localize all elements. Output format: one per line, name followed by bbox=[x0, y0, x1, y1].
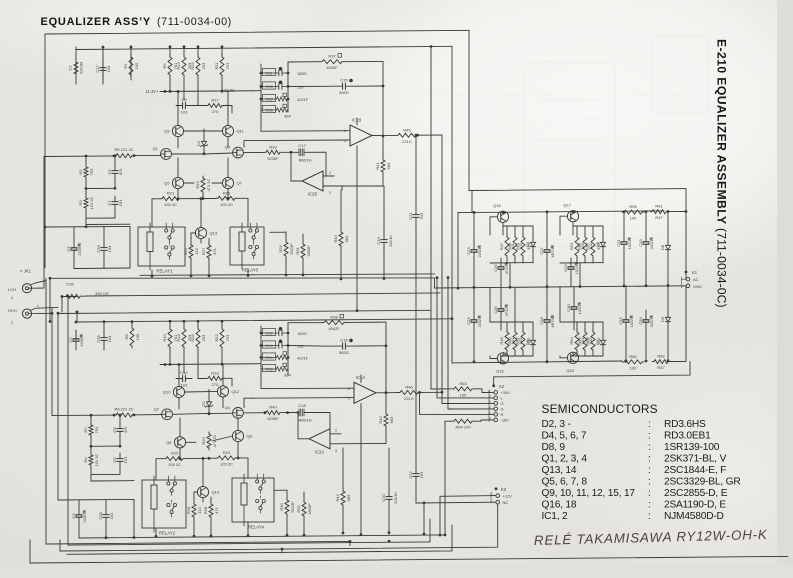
junction bbox=[290, 151, 293, 154]
wire bbox=[573, 318, 575, 330]
svg-text:LCH: LCH bbox=[8, 287, 16, 292]
svg-text:R26: R26 bbox=[186, 506, 191, 514]
capacitor C23 bbox=[471, 240, 480, 262]
junction bbox=[423, 502, 426, 505]
connector K3 pin bbox=[495, 487, 498, 490]
wire bbox=[302, 234, 304, 242]
terminal K2 R bbox=[494, 413, 498, 417]
wire bbox=[576, 226, 578, 235]
wire bbox=[473, 288, 475, 311]
wire bbox=[103, 227, 105, 241]
wire bbox=[178, 365, 180, 387]
svg-text:333: 333 bbox=[419, 212, 424, 219]
svg-text:C39: C39 bbox=[96, 335, 101, 343]
svg-text:R22: R22 bbox=[171, 451, 179, 456]
wire bbox=[500, 287, 502, 300]
svg-text:3: 3 bbox=[329, 191, 331, 195]
svg-text:203: 203 bbox=[201, 334, 206, 341]
resistor R54 bbox=[575, 330, 579, 352]
wire: L input line bbox=[44, 155, 114, 158]
junction bbox=[260, 344, 263, 347]
svg-text:563G: 563G bbox=[339, 90, 349, 95]
wire bbox=[237, 442, 239, 458]
svg-text:11.3V+: 11.3V+ bbox=[145, 89, 159, 94]
junction bbox=[51, 312, 54, 315]
wire bbox=[185, 390, 218, 393]
svg-text:113: 113 bbox=[197, 507, 202, 514]
resistor R33 bbox=[261, 93, 288, 101]
wire bbox=[514, 258, 516, 263]
svg-text:471/1E: 471/1E bbox=[504, 303, 509, 316]
resistor R46 bbox=[398, 391, 420, 395]
svg-text:GND: GND bbox=[693, 284, 702, 289]
resistor R23 bbox=[216, 196, 237, 200]
wire bbox=[584, 322, 586, 330]
wire bbox=[340, 190, 342, 230]
svg-text:163: 163 bbox=[419, 471, 424, 478]
svg-text:R27: R27 bbox=[201, 247, 206, 255]
wire bbox=[177, 92, 179, 126]
wire bbox=[625, 332, 627, 361]
svg-text:3: 3 bbox=[335, 449, 337, 453]
svg-text:332/1E: 332/1E bbox=[649, 236, 654, 249]
resistor R1 bbox=[84, 165, 88, 179]
resistor R34 bbox=[261, 352, 288, 360]
wire bbox=[341, 186, 343, 190]
svg-text:C26: C26 bbox=[493, 306, 498, 314]
wire: left border bbox=[44, 34, 46, 268]
junction bbox=[85, 187, 88, 190]
svg-text:D2: D2 bbox=[201, 401, 206, 407]
wire bbox=[119, 437, 121, 446]
resistor R8 bbox=[130, 326, 134, 348]
resistor R27 bbox=[207, 243, 211, 260]
svg-text:Q11: Q11 bbox=[237, 129, 245, 134]
svg-text:103: 103 bbox=[181, 110, 188, 115]
svg-text:753: 753 bbox=[89, 168, 94, 175]
svg-text:Q9, 10, 11, 12, 15, 17: Q9, 10, 11, 12, 15, 17 bbox=[542, 488, 636, 499]
svg-text:Q17: Q17 bbox=[563, 203, 571, 208]
wire bbox=[184, 182, 194, 184]
junction bbox=[49, 277, 52, 280]
resistor R40 bbox=[264, 411, 282, 415]
junction bbox=[546, 360, 549, 363]
wire bbox=[429, 519, 431, 542]
wire bbox=[227, 158, 229, 177]
capacitor C20 bbox=[386, 489, 392, 507]
terminal K3 +12V bbox=[496, 494, 500, 498]
junction bbox=[260, 332, 263, 335]
svg-text:270: 270 bbox=[212, 382, 219, 387]
wire bbox=[210, 497, 212, 502]
wire: K3 pin bracket bbox=[491, 493, 496, 503]
wire: lower 11.3V rail bbox=[160, 363, 261, 366]
svg-text:IC2A: IC2A bbox=[315, 449, 325, 454]
svg-text:R38: R38 bbox=[330, 315, 338, 320]
terminal K2 G bbox=[494, 407, 498, 411]
wire bbox=[560, 356, 567, 358]
resistor R56 bbox=[583, 330, 587, 352]
wire bbox=[75, 331, 77, 340]
svg-text:R12: R12 bbox=[214, 334, 219, 342]
wire bbox=[667, 255, 669, 286]
svg-text:R66/1H: R66/1H bbox=[299, 159, 312, 163]
wire: supply drop to lower channel bbox=[451, 46, 453, 363]
junction bbox=[247, 534, 250, 537]
junction bbox=[260, 85, 263, 88]
svg-text:102/1E: 102/1E bbox=[574, 261, 579, 274]
svg-text:683: 683 bbox=[344, 235, 349, 242]
capacitor C14 bbox=[261, 340, 288, 349]
svg-text:102/1E: 102/1E bbox=[627, 236, 632, 249]
wire: IC1A out bbox=[376, 392, 398, 394]
capacitor C25 bbox=[498, 258, 507, 278]
svg-text:C30: C30 bbox=[566, 304, 571, 312]
junction bbox=[183, 45, 186, 48]
wire bbox=[179, 448, 181, 459]
wire bbox=[576, 352, 578, 356]
wire bbox=[36, 281, 46, 283]
svg-text:R28: R28 bbox=[203, 506, 208, 514]
wire bbox=[208, 239, 210, 244]
terminal K2 L bbox=[494, 396, 498, 400]
wire: loom stub bbox=[49, 278, 51, 321]
svg-text:R8: R8 bbox=[124, 334, 129, 340]
svg-text:C31: C31 bbox=[616, 239, 621, 247]
wire bbox=[73, 227, 75, 240]
svg-text:R50: R50 bbox=[507, 337, 512, 345]
svg-text:563G: 563G bbox=[339, 350, 349, 355]
wire bbox=[500, 320, 502, 330]
capacitor C4 bbox=[76, 507, 85, 525]
junction bbox=[113, 414, 116, 417]
wire: mid bus B bbox=[58, 310, 430, 313]
wire bbox=[171, 153, 204, 155]
svg-text:R30: R30 bbox=[279, 503, 284, 511]
wire bbox=[85, 156, 87, 165]
junction bbox=[113, 155, 116, 158]
wire bbox=[57, 314, 59, 501]
svg-text:4221F: 4221F bbox=[297, 97, 309, 102]
wire: output bottom rail bbox=[452, 361, 622, 363]
relay RELAY4 bbox=[232, 474, 274, 526]
svg-text:2: 2 bbox=[329, 171, 331, 175]
wire bbox=[202, 458, 204, 486]
svg-text:R14: R14 bbox=[176, 334, 181, 342]
wire bbox=[522, 322, 524, 330]
svg-text:AC: AC bbox=[693, 277, 699, 282]
junction bbox=[645, 210, 648, 213]
junction bbox=[685, 210, 688, 213]
svg-text:Q8: Q8 bbox=[247, 434, 253, 439]
wire bbox=[129, 226, 131, 268]
wire bbox=[382, 155, 384, 158]
capacitor C24 bbox=[471, 310, 480, 332]
svg-text:C6: C6 bbox=[112, 427, 117, 433]
wire bbox=[522, 258, 524, 263]
wire bbox=[221, 349, 223, 364]
svg-text:C32: C32 bbox=[618, 317, 623, 325]
junction bbox=[444, 534, 447, 537]
junction bbox=[133, 536, 136, 539]
wire: Q9-Q11 emitters bbox=[184, 130, 223, 132]
wire bbox=[192, 105, 206, 107]
wire bbox=[178, 398, 180, 409]
svg-text:R55: R55 bbox=[577, 242, 582, 250]
junction bbox=[356, 309, 359, 312]
junction bbox=[260, 356, 263, 359]
svg-text:D9: D9 bbox=[660, 316, 665, 322]
junction bbox=[579, 285, 582, 288]
wire bbox=[59, 540, 61, 551]
wire bbox=[74, 267, 130, 270]
resistor R18 bbox=[206, 376, 224, 380]
wire: top supply bus bbox=[76, 46, 452, 49]
junction bbox=[473, 286, 476, 289]
wire bbox=[90, 437, 92, 453]
wire bbox=[473, 332, 475, 362]
transistor Q11 bbox=[222, 125, 233, 136]
resistor R47 bbox=[505, 235, 509, 258]
svg-text:470: 470 bbox=[118, 168, 123, 175]
svg-text:R57: R57 bbox=[585, 242, 590, 250]
junction bbox=[287, 344, 290, 347]
terminal K1 GND bbox=[686, 284, 690, 288]
resistor R26 bbox=[192, 502, 196, 519]
wire bbox=[103, 258, 105, 268]
junction bbox=[286, 534, 289, 537]
junction bbox=[623, 285, 626, 288]
resistor R41 bbox=[381, 158, 385, 174]
resistor R25 bbox=[189, 243, 193, 260]
wire bbox=[667, 327, 669, 361]
transistor Q4 bbox=[233, 408, 244, 419]
svg-text:R44: R44 bbox=[335, 494, 340, 502]
capacitor C28 bbox=[544, 310, 553, 332]
svg-text:220/RE: 220/RE bbox=[77, 242, 82, 256]
wire bbox=[532, 252, 534, 263]
wire: top border and route to K1 bbox=[45, 30, 686, 272]
junction bbox=[155, 535, 158, 538]
wire bbox=[222, 397, 224, 408]
wire bbox=[288, 85, 330, 87]
junction bbox=[169, 320, 172, 323]
jack JK2 bbox=[22, 308, 36, 318]
junction bbox=[264, 411, 267, 414]
svg-text:101 2C: 101 2C bbox=[89, 196, 94, 209]
svg-text:R13: R13 bbox=[176, 62, 181, 70]
capacitor C8 bbox=[117, 453, 123, 467]
transistor Q15 bbox=[497, 211, 508, 222]
svg-text:D8, 9: D8, 9 bbox=[542, 442, 566, 453]
junction bbox=[130, 46, 133, 49]
wire bbox=[75, 47, 77, 84]
capacitor C37 bbox=[100, 58, 106, 80]
wire bbox=[61, 297, 63, 313]
wire bbox=[602, 350, 604, 356]
wire bbox=[193, 519, 195, 536]
wire bbox=[388, 507, 390, 533]
svg-text:471: 471 bbox=[214, 506, 219, 513]
junction bbox=[177, 197, 180, 200]
junction bbox=[90, 445, 93, 448]
junction bbox=[208, 457, 211, 460]
wire: cluster left rail bbox=[260, 326, 262, 375]
svg-text:2SK371-BL, V: 2SK371-BL, V bbox=[664, 454, 727, 465]
junction bbox=[349, 540, 352, 543]
wire bbox=[155, 528, 157, 536]
svg-text:C19: C19 bbox=[376, 237, 381, 245]
svg-text:683: 683 bbox=[346, 494, 351, 501]
resistor R3 bbox=[84, 196, 88, 210]
svg-text:NC: NC bbox=[503, 500, 509, 505]
junction bbox=[200, 197, 203, 200]
junction bbox=[340, 278, 343, 281]
resistor R61 bbox=[650, 210, 668, 214]
svg-text:E-210 EQUALIZER ASSEMBLY (711-: E-210 EQUALIZER ASSEMBLY (711-0034-0C) bbox=[715, 39, 729, 308]
wire bbox=[78, 525, 80, 538]
svg-text:C5: C5 bbox=[107, 169, 112, 175]
wire bbox=[358, 345, 386, 347]
diode D8 bbox=[665, 240, 670, 255]
wire bbox=[576, 258, 578, 263]
wire bbox=[237, 198, 248, 227]
wire bbox=[179, 418, 181, 437]
svg-text:4221F: 4221F bbox=[297, 356, 309, 361]
svg-text:C15: C15 bbox=[340, 78, 348, 83]
wire bbox=[177, 189, 179, 199]
junction bbox=[208, 274, 211, 277]
wire bbox=[514, 226, 516, 235]
terminal K2 +15V bbox=[494, 391, 498, 395]
wire bbox=[103, 322, 105, 328]
wire: step bbox=[434, 278, 436, 288]
wire bbox=[560, 262, 603, 264]
wire bbox=[385, 428, 387, 438]
wire bbox=[73, 258, 75, 269]
svg-text:R11: R11 bbox=[214, 62, 219, 70]
junction bbox=[210, 535, 213, 538]
svg-text:R5 221 2C: R5 221 2C bbox=[114, 147, 133, 152]
svg-text:G: G bbox=[501, 407, 504, 412]
resistor R10 bbox=[168, 327, 172, 349]
wire bbox=[183, 349, 185, 373]
wire: IC2A out bbox=[298, 413, 309, 439]
resistor R24 bbox=[216, 456, 237, 460]
wire: feedback right rail bbox=[382, 61, 384, 155]
wire bbox=[502, 353, 504, 356]
wire: bottom bus B bbox=[79, 535, 445, 538]
svg-text:152: 152 bbox=[297, 85, 304, 90]
svg-text:R59: R59 bbox=[629, 204, 637, 209]
wire bbox=[383, 250, 385, 279]
wire bbox=[685, 272, 687, 279]
svg-text:Q16: Q16 bbox=[496, 369, 504, 374]
svg-text:R3: R3 bbox=[78, 200, 83, 206]
wire bbox=[198, 77, 206, 106]
wire: return line to K2 bbox=[494, 361, 690, 386]
svg-text:5230F: 5230F bbox=[267, 156, 279, 161]
diode D4 bbox=[530, 237, 535, 252]
capacitor C31 bbox=[621, 232, 630, 254]
svg-text:RELAY3: RELAY3 bbox=[242, 268, 259, 273]
junction bbox=[221, 45, 224, 48]
diode D5 bbox=[600, 237, 605, 252]
svg-text:C18: C18 bbox=[298, 403, 306, 408]
junction bbox=[203, 152, 206, 155]
wire bbox=[85, 210, 87, 225]
svg-text:220/1E: 220/1E bbox=[477, 314, 482, 327]
svg-text:104: 104 bbox=[109, 512, 114, 519]
wire: bottom border bbox=[30, 540, 788, 563]
wire bbox=[645, 212, 647, 232]
svg-text:C38: C38 bbox=[98, 512, 103, 520]
svg-text:R62: R62 bbox=[657, 354, 665, 359]
wire bbox=[592, 322, 594, 330]
svg-text:1: 1 bbox=[491, 492, 493, 496]
svg-text:R7: R7 bbox=[123, 63, 128, 69]
connector K2 pin bbox=[492, 384, 495, 387]
diode D2 bbox=[205, 398, 213, 410]
junction bbox=[76, 311, 79, 314]
junction bbox=[415, 134, 418, 137]
wire bbox=[183, 47, 185, 55]
transistor Q9 bbox=[172, 125, 183, 136]
svg-text:104: 104 bbox=[107, 245, 112, 252]
wire bbox=[102, 47, 104, 84]
junction bbox=[625, 360, 628, 363]
wire bbox=[330, 442, 386, 444]
wire bbox=[78, 500, 80, 507]
capacitor C11 bbox=[261, 67, 288, 76]
svg-text:2SC2855-D, E: 2SC2855-D, E bbox=[664, 488, 728, 499]
diode D7 bbox=[600, 335, 605, 350]
wire bbox=[325, 163, 327, 176]
wire bbox=[90, 415, 92, 423]
wire bbox=[573, 225, 603, 227]
wire bbox=[186, 441, 196, 443]
svg-text:D7: D7 bbox=[595, 339, 600, 345]
wire bbox=[573, 286, 575, 298]
wire bbox=[349, 541, 351, 545]
wire bbox=[474, 420, 494, 421]
wire bbox=[584, 258, 586, 263]
svg-text:2SA1190-D, E: 2SA1190-D, E bbox=[664, 500, 726, 511]
svg-text::: : bbox=[648, 431, 651, 442]
resistor bbox=[114, 154, 134, 158]
capacitor C26 bbox=[498, 300, 507, 320]
wire: K1 pin bracket bbox=[682, 277, 687, 288]
svg-text:R: R bbox=[501, 412, 504, 417]
junction bbox=[385, 345, 388, 348]
junction bbox=[447, 276, 450, 279]
wire bbox=[303, 492, 305, 500]
junction bbox=[457, 287, 460, 290]
svg-text:183G: 183G bbox=[297, 331, 307, 336]
resistor R60 bbox=[622, 360, 644, 364]
wire bbox=[503, 225, 533, 227]
capacitor C34 bbox=[643, 310, 652, 332]
wire bbox=[344, 60, 383, 62]
wire: to K2 G2 bbox=[448, 277, 494, 409]
svg-text:Q10: Q10 bbox=[163, 390, 171, 395]
wire bbox=[602, 252, 604, 263]
wire bbox=[91, 445, 120, 447]
svg-text:Q18: Q18 bbox=[566, 368, 574, 373]
wire bbox=[546, 332, 548, 362]
junction bbox=[645, 284, 648, 287]
wire bbox=[203, 129, 205, 137]
